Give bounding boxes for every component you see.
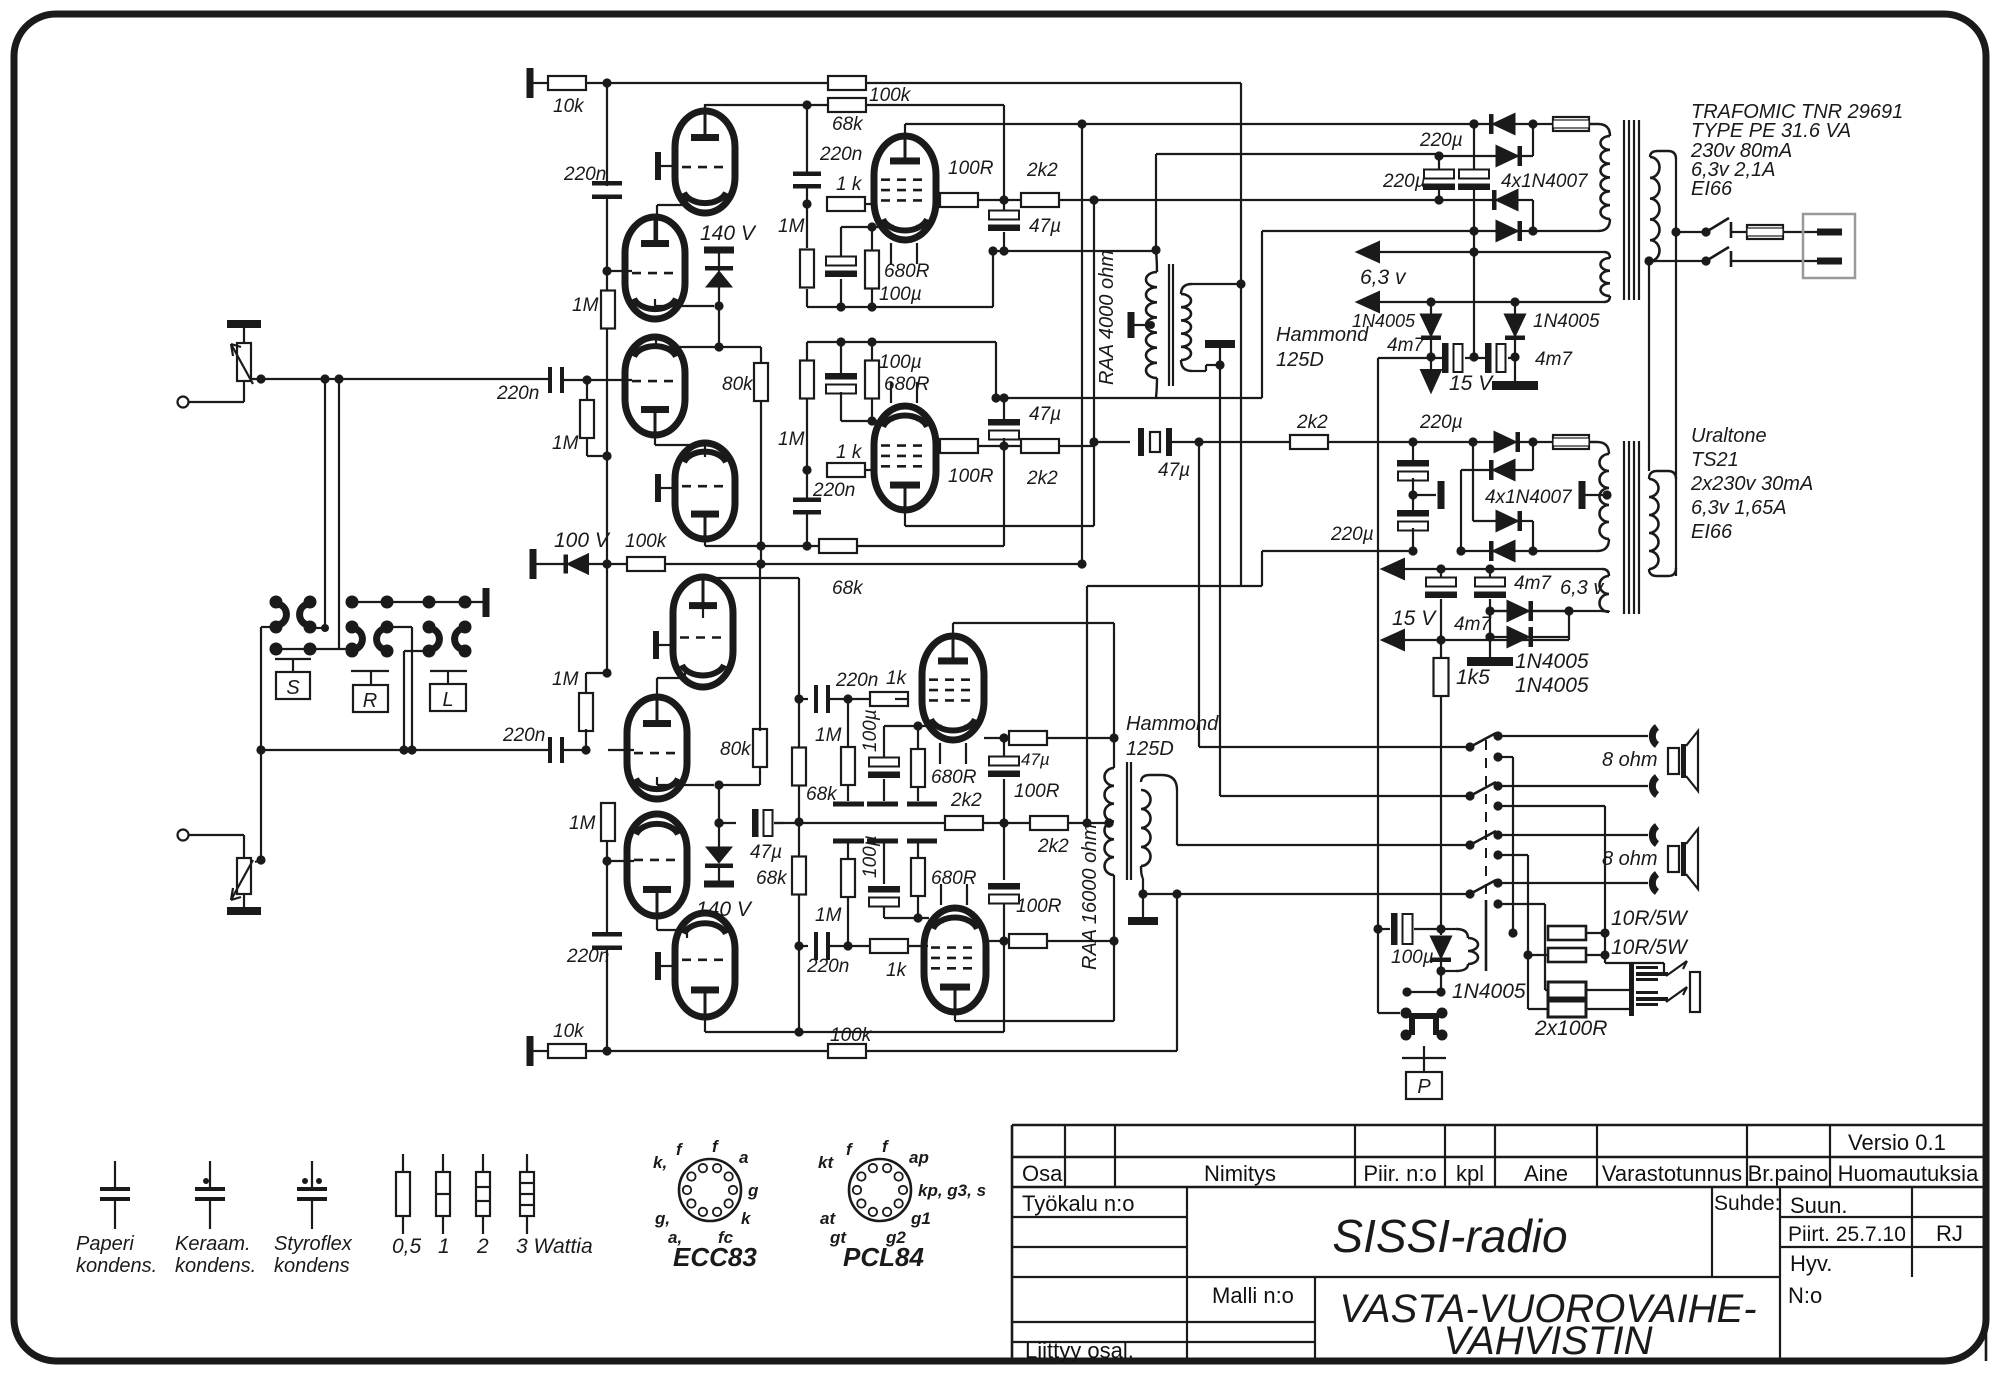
- wire x1087 Bplus down: [1086, 586, 1088, 823]
- wire feed L3 ch2: [1177, 844, 1470, 846]
- node y785: [714, 780, 723, 789]
- svg-text:kp, g3, s: kp, g3, s: [918, 1181, 986, 1200]
- svg-text:1N4005: 1N4005: [1352, 311, 1416, 331]
- svg-text:1 k: 1 k: [836, 174, 863, 195]
- svg-text:k,: k,: [653, 1153, 667, 1172]
- wire jog y586: [1087, 585, 1262, 587]
- diode D7 1N4007: [1472, 442, 1474, 521]
- triode V1b: [625, 217, 685, 319]
- svg-text:4x1N4007: 4x1N4007: [1485, 487, 1573, 508]
- wire x807 vertical ch1 lower: [806, 342, 808, 361]
- resistor 68k ch2 upper (vertical): [792, 748, 806, 786]
- capacitor 47u ch1l (x1004): [1003, 398, 1005, 419]
- svg-text:g: g: [747, 1181, 759, 1200]
- input jack J1 (top): [178, 397, 189, 408]
- svg-text:RAA 16000 ohm: RAA 16000 ohm: [1079, 824, 1101, 970]
- svg-text:1: 1: [438, 1235, 450, 1258]
- zener 140V ch1: [704, 247, 734, 254]
- node x608 y456: [602, 451, 611, 460]
- svg-text:Piirt. 25.7.10: Piirt. 25.7.10: [1788, 1223, 1906, 1246]
- resistor 100R ch2l: [984, 940, 1010, 942]
- svg-text:RJ: RJ: [1936, 1221, 1963, 1246]
- svg-text:4m7: 4m7: [1387, 335, 1425, 356]
- wire y398 to RAA4000 primary bottom: [996, 397, 1157, 399]
- svg-text:680R: 680R: [931, 767, 977, 788]
- wire 6.3v heater winding bottom lead: [1490, 610, 1602, 612]
- wire contact2 to speaker1 bottom: [1498, 785, 1648, 787]
- cathode rail y307 ch1u: [807, 306, 993, 308]
- speaker 2 terminals: [1652, 826, 1657, 844]
- selector left lower dots: [270, 643, 283, 656]
- svg-text:ap: ap: [909, 1148, 929, 1167]
- svg-text:3 Wattia: 3 Wattia: [516, 1235, 593, 1258]
- svg-text:220µ: 220µ: [1330, 524, 1374, 545]
- switch pole 3: [1465, 840, 1474, 849]
- svg-text:1N4005: 1N4005: [1515, 650, 1589, 673]
- wire sec bottom stem: [1142, 878, 1144, 918]
- cathode wire y421 ch1l: [841, 420, 878, 422]
- capacitor 47u ch1 out: [1094, 441, 1130, 443]
- S box (speaker sym): [275, 658, 311, 660]
- svg-text:Suhde:: Suhde:: [1714, 1192, 1781, 1215]
- svg-text:100R: 100R: [1016, 896, 1062, 917]
- wire bottom rail y1051: [607, 1050, 829, 1052]
- svg-text:g1: g1: [910, 1209, 931, 1228]
- svg-text:VAHVISTIN: VAHVISTIN: [1444, 1319, 1653, 1363]
- capacitor 220n ch2 input: [548, 737, 552, 763]
- wire selector left vertical: [261, 626, 276, 628]
- wire V2b plate line y546: [704, 515, 706, 546]
- arrow 15V down: [1430, 357, 1432, 372]
- svg-text:220µ: 220µ: [1419, 130, 1463, 151]
- wire 68k line y105: [704, 105, 706, 111]
- svg-text:N:o: N:o: [1788, 1283, 1822, 1308]
- pentode PCL84 #1: [874, 136, 936, 240]
- svg-text:Liittyy osal.: Liittyy osal.: [1025, 1338, 1134, 1363]
- node secondary top x1241: [1236, 279, 1245, 288]
- wire V1b cathode y306: [654, 299, 656, 306]
- resistor 80k ch2: [753, 729, 767, 767]
- svg-text:EI66: EI66: [1691, 521, 1733, 543]
- svg-text:100 V: 100 V: [554, 529, 611, 552]
- wire V4a plate to V4b: [656, 888, 658, 930]
- RAA16000 core: [1126, 762, 1128, 880]
- capacitor 220n ch1 (x608): [592, 181, 622, 186]
- plate line y124 ch1u: [905, 123, 1474, 125]
- wire x1177 bottom rail link: [1176, 894, 1178, 1051]
- pentode PCL84 #2: [874, 406, 936, 510]
- wire 6.3v heater ch2 upper: [1404, 568, 1602, 570]
- switch pole 4: [1465, 889, 1474, 898]
- svg-text:2x230v 30mA: 2x230v 30mA: [1690, 473, 1813, 495]
- wire mains top x1676: [1675, 159, 1677, 576]
- resistor 80k ch1: [754, 363, 768, 401]
- terminal 10k top: [527, 68, 534, 98]
- svg-text:1k: 1k: [886, 668, 908, 689]
- selector left contact pair: [270, 596, 283, 609]
- wire V4b plate line y1032: [704, 993, 706, 1032]
- pentode PCL84 #3: [922, 636, 984, 740]
- svg-text:100R: 100R: [1014, 781, 1060, 802]
- resistor 2k2 ch1l: [1021, 439, 1059, 453]
- legend PCL84 socket: [849, 1159, 911, 1221]
- wire y154 to PS: [1156, 153, 1439, 155]
- triode V4a (inverted): [627, 814, 687, 916]
- wire y551 Uraltone bottom rail left part: [1262, 550, 1413, 552]
- svg-text:100µ: 100µ: [860, 709, 881, 752]
- svg-text:1M: 1M: [815, 725, 842, 746]
- selector right contact pairs: [346, 621, 359, 634]
- ground 15V right: [1514, 358, 1516, 381]
- wire jack top: [1605, 962, 1664, 964]
- svg-text:47µ: 47µ: [1029, 216, 1061, 237]
- svg-text:680R: 680R: [884, 261, 930, 282]
- wire x412 drop: [387, 626, 412, 628]
- capacitor 220n ch2 (x608): [592, 932, 622, 937]
- svg-text:P: P: [1417, 1076, 1431, 1098]
- svg-text:4m7: 4m7: [1454, 614, 1492, 635]
- RAA16000 secondary: [1141, 775, 1177, 790]
- speaker 1 terminals: [1652, 727, 1657, 745]
- resistor 1k ch2l: [870, 939, 908, 953]
- terminal Uraltone center tap: [1579, 481, 1586, 509]
- svg-text:Työkalu n:o: Työkalu n:o: [1022, 1191, 1135, 1216]
- svg-text:Hammond: Hammond: [1126, 713, 1219, 735]
- svg-text:8 ohm: 8 ohm: [1602, 848, 1658, 870]
- wire mains lower: [1644, 256, 1653, 265]
- svg-text:Versio 0.1: Versio 0.1: [1848, 1130, 1946, 1155]
- node grid x586: [581, 745, 590, 754]
- plate line ch2l y1021: [954, 1012, 956, 1021]
- node tube7 grid: [602, 856, 611, 865]
- resistor 10k top: [548, 76, 586, 90]
- resistor 68k ch1u: [828, 98, 866, 112]
- svg-text:kondens.: kondens.: [175, 1255, 256, 1277]
- legend resistor 0,5W: [402, 1154, 404, 1172]
- wire y347 to 80k: [656, 346, 719, 348]
- wire contact 806 drop: [1498, 805, 1605, 807]
- bars ch2u: [833, 802, 864, 807]
- wire plate line ch1l to x1094: [904, 510, 906, 526]
- diode D2 1N4007: [1439, 155, 1496, 157]
- svg-text:Br.paino: Br.paino: [1748, 1161, 1829, 1186]
- heater stubs PCL84#2: [890, 382, 892, 403]
- wire x1094: [1093, 200, 1095, 526]
- cathode wire y227 ch1u: [841, 226, 878, 228]
- node tube2 grid: [602, 266, 611, 275]
- svg-text:4m7: 4m7: [1514, 573, 1552, 594]
- legend keraam kondens: [209, 1161, 211, 1187]
- grid terminal V1a: [655, 152, 661, 180]
- selector switch bank bus: [352, 601, 484, 603]
- resistor 2x100R #1: [1545, 989, 1550, 991]
- svg-text:Nimitys: Nimitys: [1204, 1161, 1276, 1186]
- node x325: [310, 627, 325, 629]
- svg-text:15 V: 15 V: [1392, 607, 1437, 630]
- Uraltone mains winding: [1649, 471, 1676, 479]
- svg-text:80k: 80k: [722, 374, 754, 395]
- svg-text:220n: 220n: [812, 480, 855, 501]
- resistor 2k2 ch2u: [945, 816, 983, 830]
- capacitor 100u ch1l: [840, 342, 842, 373]
- legend resistor 3W: [526, 1154, 528, 1172]
- capacitor 47u ch1u (x1004): [1003, 105, 1005, 200]
- capacitor 100u relay: [1373, 924, 1382, 933]
- svg-text:47µ: 47µ: [1021, 750, 1050, 769]
- diode 1N4005 u2: [1489, 611, 1491, 637]
- wire 15V arrow lower: [1404, 639, 1569, 641]
- diode 1N4005 right: [1514, 302, 1516, 314]
- node top rail: [602, 78, 611, 87]
- wire grid ch2u y699: [794, 694, 803, 703]
- svg-text:6,3 v: 6,3 v: [1360, 266, 1407, 289]
- wire RAA4000 primary top to y154: [1155, 154, 1157, 250]
- svg-text:SISSI-radio: SISSI-radio: [1332, 1210, 1567, 1262]
- capacitor 220u #4: [1412, 495, 1414, 510]
- svg-text:Varastotunnus: Varastotunnus: [1602, 1161, 1742, 1186]
- wire contact 855 drop: [1498, 854, 1528, 856]
- svg-text:kondens: kondens: [274, 1255, 350, 1277]
- triode V3a: [673, 577, 733, 687]
- resistor 2k2 ch1u: [1021, 193, 1059, 207]
- svg-text:Huomautuksia: Huomautuksia: [1838, 1161, 1979, 1186]
- resistor 1k5: [1440, 640, 1442, 659]
- capacitor 220u #2: [1469, 119, 1478, 128]
- resistor 100R ch2u: [984, 737, 1010, 739]
- svg-text:100R: 100R: [948, 158, 994, 179]
- transformer TRAFOMIC HT winding: [1601, 136, 1611, 219]
- svg-text:kt: kt: [818, 1153, 834, 1172]
- svg-text:RAA 4000 ohm: RAA 4000 ohm: [1096, 250, 1118, 385]
- wire D3 feed y200: [1094, 199, 1439, 201]
- wire V3a cathode to V3b plate: [684, 670, 686, 678]
- svg-text:6,3 v: 6,3 v: [1560, 577, 1604, 599]
- wire top rail y83: [607, 82, 829, 84]
- svg-text:TYPE PE 31.6 VA: TYPE PE 31.6 VA: [1691, 120, 1851, 142]
- wire V3b grid: [608, 749, 634, 751]
- resistor 1M ch1l: [800, 361, 814, 399]
- svg-text:100k: 100k: [830, 1025, 873, 1046]
- svg-text:1N4005: 1N4005: [1533, 311, 1600, 332]
- svg-text:47µ: 47µ: [1029, 404, 1061, 425]
- resistor 1M ch2 (x608): [601, 803, 615, 841]
- switch bank dashes: [1485, 740, 1487, 925]
- resistor 10R/5W #2: [1528, 954, 1550, 956]
- svg-text:0,5: 0,5: [392, 1235, 422, 1258]
- zener 140V ch2: [718, 785, 720, 847]
- speaker 2: [1668, 846, 1679, 872]
- terminal 10k bottom: [527, 1036, 534, 1066]
- node 80k on 100k line: [756, 559, 765, 568]
- svg-text:Hyv.: Hyv.: [1790, 1251, 1832, 1276]
- wire branch x339 to selector: [334, 374, 343, 383]
- resistor 680R ch2u: [917, 726, 919, 749]
- svg-text:220n: 220n: [806, 956, 849, 977]
- diode 1N4005 left: [1430, 302, 1432, 314]
- resistor 2k2 out ch1: [1290, 435, 1328, 449]
- wire feed L2 from x1219: [1220, 795, 1470, 797]
- diode D5 1N4007: [1495, 432, 1516, 452]
- cathode wire y726 ch2u: [884, 725, 929, 727]
- switch SW mains upper: [1676, 231, 1703, 233]
- svg-text:10R/5W: 10R/5W: [1611, 907, 1689, 930]
- resistor 1M input ch1: [586, 380, 588, 401]
- ground RAA16000: [1128, 917, 1158, 925]
- capacitor 47u ch2 fb: [752, 809, 759, 837]
- node y306: [714, 301, 723, 310]
- title bottom grid: [1314, 1277, 1316, 1361]
- svg-text:S: S: [286, 677, 300, 699]
- wire sec top to y845: [1176, 790, 1178, 845]
- node x608 y673: [602, 668, 611, 677]
- svg-text:220n: 220n: [819, 144, 862, 165]
- svg-text:2k2: 2k2: [1037, 836, 1069, 857]
- svg-text:100µ: 100µ: [879, 284, 922, 305]
- resistor 2x100R #2: [1528, 1008, 1550, 1010]
- svg-text:2k2: 2k2: [1026, 160, 1058, 181]
- wire x1004 ch2: [1003, 738, 1005, 756]
- svg-text:220n: 220n: [496, 383, 539, 404]
- switch pole 2: [1465, 791, 1474, 800]
- wire feed L4 ch2: [1143, 893, 1470, 895]
- svg-text:47µ: 47µ: [750, 842, 782, 863]
- legend resistor 2W: [482, 1154, 484, 1172]
- wire pot2 wiper up to 220n ch2 line: [256, 855, 265, 864]
- svg-text:kondens.: kondens.: [76, 1255, 157, 1277]
- resistor 680R ch2l: [917, 843, 919, 858]
- wire tube3 top lead: [655, 340, 657, 347]
- svg-text:220n: 220n: [566, 946, 609, 967]
- svg-text:68k: 68k: [832, 578, 864, 599]
- svg-text:a: a: [739, 1148, 748, 1167]
- wire 6.3v upper: [1379, 251, 1604, 253]
- resistor 1M input ch2: [585, 673, 587, 695]
- capacitor 220u #1: [1438, 156, 1440, 172]
- Uraltone core: [1623, 441, 1625, 614]
- capacitor 4m7 right: [1474, 357, 1486, 359]
- svg-text:Paperi: Paperi: [76, 1233, 134, 1255]
- triode V2b (inverted): [675, 443, 735, 539]
- wire pot1 wiper to 220n ch1: [256, 374, 265, 383]
- wire primary bottom y398 to jog: [1156, 397, 1262, 399]
- wire Uraltone top rail y442: [1408, 437, 1417, 446]
- svg-text:100µ: 100µ: [1391, 947, 1434, 968]
- capacitor 220n g ch1l: [793, 498, 821, 503]
- svg-text:4m7: 4m7: [1535, 349, 1573, 370]
- svg-text:1M: 1M: [778, 429, 805, 450]
- svg-text:68k: 68k: [832, 114, 864, 135]
- terminal RAA4000 center tap: [1128, 312, 1135, 338]
- svg-text:68k: 68k: [756, 868, 788, 889]
- volume pot P1 (top): [243, 381, 245, 402]
- svg-text:100k: 100k: [625, 531, 668, 552]
- cathode wire y918 ch2l: [884, 917, 929, 919]
- svg-text:1N4005: 1N4005: [1452, 980, 1526, 1003]
- resistor 680R ch1l: [871, 342, 873, 361]
- wire V3a plate feed: [702, 578, 704, 618]
- triode V1a: [675, 111, 735, 213]
- wire contact4 to speaker2 bottom: [1498, 882, 1648, 884]
- node bottom rail: [602, 1046, 611, 1055]
- svg-text:125D: 125D: [1126, 738, 1174, 760]
- TRAFOMIC core: [1623, 120, 1625, 300]
- svg-text:220n: 220n: [502, 725, 545, 746]
- relay coil: [1441, 928, 1456, 930]
- diode 1N4005 relay: [1440, 929, 1442, 935]
- resistor 100R ch1u: [936, 199, 941, 201]
- fuse F1: [1553, 117, 1589, 131]
- svg-text:80k: 80k: [720, 739, 752, 760]
- svg-text:Piir. n:o: Piir. n:o: [1363, 1161, 1436, 1186]
- svg-text:1k5: 1k5: [1456, 666, 1490, 689]
- wire y231 to bridge: [1262, 230, 1474, 232]
- svg-text:8 ohm: 8 ohm: [1602, 749, 1658, 771]
- svg-text:100µ: 100µ: [860, 835, 881, 878]
- svg-text:2x100R: 2x100R: [1534, 1017, 1607, 1040]
- heater stubs PCL84#3: [939, 743, 941, 764]
- svg-text:220n: 220n: [563, 164, 606, 185]
- wire 6.3v lower: [1379, 301, 1604, 303]
- switch SW mains lower: [1706, 247, 1729, 261]
- Uraltone 6.3v winding: [1600, 576, 1610, 612]
- L box: [430, 670, 467, 672]
- svg-text:220µ: 220µ: [1382, 171, 1426, 192]
- ground RAA4000 (points up): [1215, 360, 1224, 369]
- input jack J2 (bottom): [178, 830, 189, 841]
- node mid rail x1084: [1077, 559, 1086, 568]
- wire V2a grid to input: [562, 379, 632, 381]
- svg-text:R: R: [363, 690, 377, 712]
- bars ch2l: [833, 839, 864, 844]
- triode V3b: [627, 697, 687, 799]
- heater stubs PCL84#1: [890, 243, 892, 264]
- resistor 10R/5W #1: [1548, 926, 1586, 940]
- svg-text:L: L: [442, 689, 453, 711]
- R box: [351, 670, 389, 672]
- wire x1262 up: [1261, 231, 1263, 398]
- resistor 1k ch2u: [870, 692, 908, 706]
- volume pot P2 (bottom): [243, 835, 245, 858]
- wire x1378 supply: [1377, 358, 1379, 929]
- svg-text:100µ: 100µ: [879, 352, 922, 373]
- wire x1474 to 4m7 node: [1473, 231, 1475, 357]
- resistor 100k mid: [627, 557, 665, 571]
- svg-text:220n: 220n: [835, 670, 878, 691]
- svg-text:kpl: kpl: [1456, 1161, 1484, 1186]
- node center tap RAA16000: [1104, 818, 1113, 827]
- svg-text:PCL84: PCL84: [843, 1242, 924, 1272]
- speaker 1: [1668, 748, 1679, 774]
- svg-text:100R: 100R: [948, 466, 994, 487]
- diode D4 1N4007: [1469, 226, 1478, 235]
- svg-text:1M: 1M: [569, 813, 596, 834]
- svg-text:10k: 10k: [553, 1021, 585, 1042]
- wire V1b grid: [608, 270, 632, 272]
- heater stubs PCL84#4: [940, 884, 942, 905]
- capacitor 100u ch2u: [883, 726, 885, 760]
- ground Uraltone: [1489, 637, 1491, 657]
- svg-text:2k2: 2k2: [950, 790, 982, 811]
- grid terminal V2b: [655, 474, 661, 502]
- capacitor 100u ch1u: [840, 227, 842, 259]
- svg-text:2k2: 2k2: [1296, 412, 1328, 433]
- wire y750 to 220n ch2: [256, 745, 265, 754]
- svg-text:2: 2: [476, 1235, 489, 1258]
- capacitor 220n g ch2u: [814, 685, 818, 713]
- wire y251 to RAA4000: [993, 250, 1157, 252]
- capacitor 220n g ch2l: [814, 932, 818, 960]
- svg-text:10k: 10k: [553, 96, 585, 117]
